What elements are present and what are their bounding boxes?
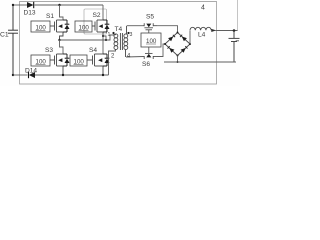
node right-edge stub bbox=[237, 0, 239, 31]
svg-text:T4: T4 bbox=[115, 26, 123, 33]
wire bottom output bbox=[164, 61, 236, 63]
rectifier bridge diamond bbox=[165, 33, 190, 56]
S2 block outline bbox=[84, 9, 107, 34]
transistor S4 (MOSFET) bbox=[87, 54, 103, 75]
svg-text:L4: L4 bbox=[198, 32, 206, 39]
node T4 secondary phase dot bbox=[127, 32, 129, 34]
wire S6 gate lead bbox=[148, 47, 150, 53]
arrow tick after L4 bbox=[211, 29, 216, 32]
node B-branch junction bbox=[105, 39, 107, 41]
wire top rail bbox=[13, 4, 103, 6]
core bbox=[119, 33, 121, 50]
wire secondary top to S5 bbox=[127, 25, 143, 27]
wire B leg down to S4 bbox=[102, 36, 104, 54]
diode S1 body bbox=[63, 20, 67, 32]
diode bridge LL bbox=[169, 48, 174, 53]
transistor S2 (MOSFET) bbox=[92, 20, 103, 36]
driver box 100 (S4) bbox=[70, 55, 87, 66]
wire S1 drain stub bbox=[58, 4, 60, 6]
wire bottom vertex down bbox=[177, 56, 179, 63]
secondary winding bbox=[124, 34, 128, 38]
wire node B branch bbox=[103, 36, 106, 40]
svg-text:S5: S5 bbox=[146, 14, 154, 21]
wire midpoint to primary bbox=[60, 35, 114, 40]
driver box 100 (S5/S6) bbox=[141, 33, 161, 47]
svg-text:D13: D13 bbox=[24, 10, 36, 17]
diode bridge UL bbox=[168, 37, 173, 42]
svg-text:S4: S4 bbox=[89, 47, 97, 54]
wire S6 to bridge left bbox=[157, 44, 165, 57]
node bottom-left junction bbox=[12, 74, 14, 76]
svg-text:C1: C1 bbox=[0, 32, 9, 39]
node top-left junction bbox=[12, 4, 14, 6]
node A bbox=[58, 39, 60, 41]
switch S5 (small horizontal MOSFET) bbox=[143, 23, 157, 30]
wire S3 drain bbox=[60, 40, 64, 54]
node T4 primary phase dot bbox=[112, 32, 114, 34]
primary winding bbox=[114, 34, 118, 38]
driver box 100 (S3) bbox=[31, 55, 50, 66]
switch S6 (small horizontal MOSFET) bbox=[143, 53, 157, 59]
svg-text:S6: S6 bbox=[142, 61, 150, 68]
diode S2 body bbox=[103, 20, 107, 32]
wire S5 gate lead bbox=[148, 30, 150, 33]
node B bbox=[102, 35, 104, 37]
diode bridge LR bbox=[181, 48, 186, 53]
transistor S3 (MOSFET) bbox=[50, 54, 63, 75]
diode bridge UR bbox=[182, 37, 187, 42]
wire S2 drain from rail bbox=[102, 5, 104, 20]
converter module boundary box bbox=[20, 2, 217, 85]
capacitor C1 bbox=[8, 5, 18, 75]
svg-text:S3: S3 bbox=[45, 47, 53, 54]
svg-text:S2: S2 bbox=[93, 12, 101, 19]
pins bbox=[113, 34, 116, 37]
driver box 100 (S2) bbox=[75, 21, 92, 32]
wire secondary bottom to S6 bbox=[126, 56, 143, 59]
svg-text:3: 3 bbox=[130, 32, 133, 38]
wire L4 to battery bbox=[216, 30, 238, 32]
inductor L4 bbox=[190, 27, 211, 30]
node battery positive junction bbox=[233, 29, 236, 32]
transistor S1 (MOSFET) bbox=[50, 20, 63, 40]
wire bottom rail bbox=[13, 74, 28, 76]
wire S5 to bridge top bbox=[157, 26, 178, 33]
svg-text:4: 4 bbox=[201, 5, 205, 12]
svg-text:S1: S1 bbox=[46, 13, 54, 20]
driver box 100 (S1) bbox=[31, 21, 50, 32]
battery polarity dash bbox=[236, 40, 239, 42]
wire bridge right vertex up bbox=[189, 31, 191, 45]
diode D13 bbox=[24, 2, 36, 17]
diode S4 body bbox=[103, 54, 107, 66]
wire rail end up to pin2 bbox=[109, 49, 116, 75]
diode D14 bbox=[25, 68, 37, 79]
diode S3 body bbox=[63, 54, 67, 66]
node bottom output junction bbox=[177, 61, 179, 63]
node bridge vertices bbox=[177, 32, 179, 34]
svg-text:1: 1 bbox=[108, 32, 111, 38]
svg-text:D14: D14 bbox=[25, 68, 37, 75]
